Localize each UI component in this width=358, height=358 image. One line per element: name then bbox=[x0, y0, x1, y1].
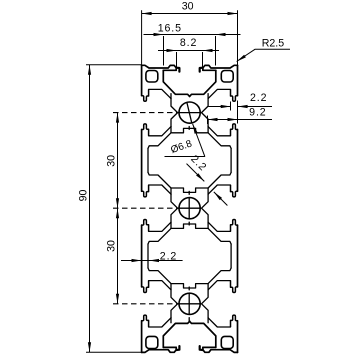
svg-text:30: 30 bbox=[105, 155, 117, 167]
svg-text:30: 30 bbox=[105, 240, 117, 252]
svg-text:2.2: 2.2 bbox=[160, 250, 177, 262]
svg-text:R2.5: R2.5 bbox=[262, 38, 284, 50]
svg-text:9.2: 9.2 bbox=[249, 107, 266, 119]
svg-text:8.2: 8.2 bbox=[180, 37, 197, 49]
svg-text:90: 90 bbox=[78, 190, 90, 202]
svg-text:2.2: 2.2 bbox=[250, 92, 267, 104]
svg-text:30: 30 bbox=[182, 0, 194, 12]
svg-text:16.5: 16.5 bbox=[158, 22, 182, 34]
